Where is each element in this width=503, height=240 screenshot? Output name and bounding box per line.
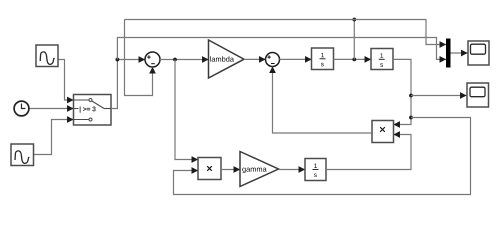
wire: Switch output up to Sum1 input (111, 60, 117, 109)
node: junction Int1 output (352, 58, 356, 62)
clock block (14, 101, 29, 116)
sine wave source Sine2 (11, 144, 34, 166)
integrator block Int1 (1/s) (312, 48, 334, 70)
wire: Clock to Switch input 2 (30, 108, 74, 110)
wire: Mux to Scope1 (451, 52, 468, 54)
node: junction to outer loop (409, 116, 413, 120)
sine wave source Sine1 (36, 45, 58, 67)
wire: tap up to line2 then to mux input 2 (117, 38, 440, 60)
wire: branch to Scope2 (411, 95, 467, 97)
switch block Switch (criteria >= 3) (74, 95, 112, 126)
wire: feedback from line1 into Sum1 bottom (125, 20, 153, 96)
wire: Sum2 to Integrator1 (280, 58, 312, 60)
node: junction to Scope2 (409, 94, 413, 98)
wire: outer loop to Product1 input 2 (174, 118, 471, 195)
wire: Lambda to Sum2 (244, 58, 266, 60)
wire: Int2 output down to Product2 top input (393, 59, 411, 124)
multiply block Product2 (mirrored) (372, 121, 394, 143)
wire: Product1 to Gamma (221, 169, 240, 171)
wire: Int3 output up to Product2 bottom input (326, 135, 411, 170)
sum block Sum1 (145, 52, 160, 67)
scope block Scope2 (467, 83, 489, 107)
sum block Sum2 (266, 53, 280, 67)
wire: Int1 to Int2 (334, 58, 372, 60)
wire: Sine2 to Switch input 3 (34, 120, 68, 155)
wire: Gamma to Int3 (279, 169, 306, 171)
node: junction on Sum1 output (173, 58, 177, 62)
gain block Lambda (209, 40, 245, 78)
wire: tap up to line1 (353, 20, 355, 60)
mux block Mux (446, 39, 451, 68)
wire: Sine1 to Switch input 1 (58, 60, 68, 101)
integrator block Int2 (1/s) (371, 49, 393, 70)
multiply block Product1 (198, 158, 221, 180)
wire: line1 top feedback (left to Sum1 loop, right to Mux input 1) (125, 20, 441, 45)
wire: tap down to Product1 input 1 (175, 60, 194, 160)
node: junction on line1 (352, 18, 356, 22)
integrator block Int3 (1/s) (305, 159, 326, 181)
scope block Scope1 (468, 41, 489, 65)
wire: Product2 output to Sum2 bottom input (273, 70, 373, 133)
wire: Sum1 output to Lambda (160, 59, 209, 61)
gain block Gamma (240, 152, 279, 187)
node: junction switch-output / tap to mux line (116, 58, 120, 62)
